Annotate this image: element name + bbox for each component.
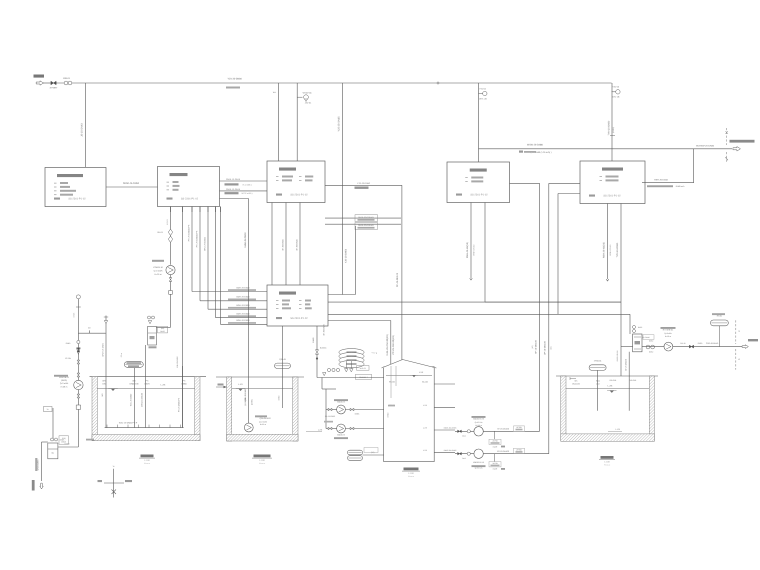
svg-text:QL: QL: [52, 451, 55, 454]
svg-text:XFJSB: XFJSB: [516, 426, 522, 429]
svg-text:XBD5-XX: XBD5-XX: [337, 434, 346, 437]
svg-text:(DN50): (DN50): [612, 127, 615, 133]
svg-text:Q=3 m3/h: Q=3 m3/h: [60, 382, 68, 385]
svg-text:H=10 m: H=10 m: [665, 335, 672, 338]
svg-text:DN40: DN40: [387, 413, 390, 418]
svg-text:DN-JS-DN32: DN-JS-DN32: [176, 356, 179, 367]
svg-text:XF-JS-DN100: XF-JS-DN100: [497, 428, 509, 431]
svg-text:QSB 25-8-22: QSB 25-8-22: [259, 417, 270, 420]
svg-text:ZC-DN: ZC-DN: [65, 357, 71, 360]
svg-text:DYL-JB: DYL-JB: [612, 96, 620, 99]
svg-text:RS.DN: RS.DN: [389, 381, 396, 384]
svg-text:(X2): (X2): [549, 346, 552, 350]
svg-text:DN15-JS-D15-WX: DN15-JS-D15-WX: [358, 224, 374, 227]
svg-text:DN65-DN: DN65-DN: [130, 383, 139, 386]
svg-text:YSJ-03: YSJ-03: [612, 86, 619, 89]
svg-text:Q=3 m3/h: Q=3 m3/h: [259, 420, 267, 423]
svg-text:XBD5/XX-XX: XBD5/XX-XX: [473, 418, 485, 421]
svg-text:XG.DN1: XG.DN1: [630, 379, 637, 382]
svg-text:WSJ-JS-DN40: WSJ-JS-DN40: [203, 236, 206, 250]
svg-text:ZPJSB: ZPJSB: [516, 448, 522, 451]
svg-text:JXYSB: JXYSB: [492, 462, 498, 465]
svg-text:WL.DN: WL.DN: [422, 381, 429, 384]
svg-text:DN70: DN70: [144, 383, 150, 386]
svg-text:XH-JS-DN50: XH-JS-DN50: [281, 238, 284, 250]
svg-text:WSJ-JS-DN65-PS-P: WSJ-JS-DN65-PS-P: [119, 421, 138, 424]
svg-text:L.XX: L.XX: [608, 385, 613, 388]
svg-text:DN65-200-DN65: DN65-200-DN65: [444, 449, 457, 452]
svg-text:SS-2301-P1-02: SS-2301-P1-02: [470, 194, 488, 197]
svg-text:PS-JS-DN100-PS: PS-JS-DN100-PS: [187, 224, 190, 241]
svg-text:DN25: DN25: [73, 313, 76, 318]
svg-text:DN15-JS-DN15: DN15-JS-DN15: [226, 188, 241, 191]
svg-text:XFSB-01: XFSB-01: [594, 360, 602, 363]
svg-text:RSH-JS-40(X2): RSH-JS-40(X2): [466, 242, 469, 258]
svg-text:DN50: DN50: [649, 351, 653, 354]
svg-text:WS2: WS2: [596, 380, 600, 383]
svg-text:ZP-JS-DN100: ZP-JS-DN100: [396, 272, 399, 287]
svg-text:DN65: DN65: [312, 337, 315, 343]
svg-text:WYL-JB: WYL-JB: [479, 97, 487, 100]
svg-text:YSJ-02: YSJ-02: [479, 87, 486, 90]
svg-text:WSD2-04: WSD2-04: [303, 91, 313, 94]
svg-text:L.XX: L.XX: [423, 404, 428, 407]
svg-text:1:100: 1:100: [259, 459, 265, 462]
svg-text:YL: YL: [113, 465, 115, 468]
svg-text:(XX): (XX): [161, 327, 165, 330]
svg-text:GL-DN40: GL-DN40: [642, 336, 649, 339]
svg-text:ZP-JS-DN100: ZP-JS-DN100: [497, 450, 509, 453]
svg-text:XH-JS-DN65: XH-JS-DN65: [323, 323, 326, 335]
svg-text:DN50: DN50: [649, 340, 653, 343]
svg-text:SS-2301-P1-02: SS-2301-P1-02: [181, 198, 199, 201]
svg-text:ZP-JS-DN100: ZP-JS-DN100: [543, 340, 546, 354]
svg-text:(DN65): (DN65): [250, 399, 253, 405]
svg-text:75.1 m3/h ): 75.1 m3/h ): [242, 183, 252, 186]
svg-text:ZC.m: ZC.m: [120, 352, 123, 357]
svg-text:YJS-JS-DN50: YJS-JS-DN50: [345, 248, 348, 263]
svg-text:XHS(X2)-DN100: XHS(X2)-DN100: [141, 393, 144, 407]
svg-text:Q=XX L/s: Q=XX L/s: [475, 421, 483, 424]
svg-text:XH-JS-DN40: XH-JS-DN40: [295, 238, 298, 250]
svg-text:H=xx.x: H=xx.x: [144, 462, 150, 465]
svg-text:DN34-DN: DN34-DN: [572, 382, 580, 385]
svg-text:H=XX m: H=XX m: [475, 424, 482, 427]
svg-text:WLRSW-JS-DN40: WLRSW-JS-DN40: [696, 144, 715, 147]
svg-text:H=xx.x: H=xx.x: [259, 462, 265, 465]
svg-text:TYN-JS-DN50: TYN-JS-DN50: [607, 120, 610, 135]
svg-text:L.XX: L.XX: [419, 371, 424, 374]
svg-text:XBD5/XX-XX: XBD5/XX-XX: [473, 461, 485, 464]
svg-text:XFWY-JS-DN25: XFWY-JS-DN25: [101, 343, 104, 357]
svg-text:DN50-JS-DN50: DN50-JS-DN50: [123, 182, 140, 185]
svg-text:L.XX: L.XX: [616, 428, 621, 431]
svg-text:RSH-GS-40: RSH-GS-40: [473, 244, 476, 256]
svg-text:YL: YL: [47, 408, 49, 411]
svg-text:RS-XHB-01: RS-XHB-01: [663, 329, 674, 332]
svg-text:DN25: DN25: [60, 439, 65, 442]
svg-text:LG-01: LG-01: [166, 218, 169, 224]
svg-text:WSJ-JS-DN40: WSJ-JS-DN40: [130, 394, 133, 406]
svg-text:50 TE m3/h ): 50 TE m3/h ): [242, 192, 253, 195]
svg-text:SHW-JS-DN50: SHW-JS-DN50: [244, 232, 247, 248]
svg-text:(25SG): (25SG): [61, 379, 67, 382]
svg-text:+ <> μ: + <> μ: [372, 351, 377, 354]
svg-text:DN65 m/h: DN65 m/h: [676, 185, 685, 188]
svg-text:RG.DN1: RG.DN1: [610, 379, 617, 382]
svg-text:DN65: DN65: [181, 383, 187, 386]
svg-text:PS-JS-DN65-PS: PS-JS-DN65-PS: [178, 397, 181, 412]
svg-text:JS-JS-DN40: JS-JS-DN40: [81, 123, 84, 137]
svg-text:SS-2301-P1-02: SS-2301-P1-02: [290, 317, 308, 320]
svg-text:JXYSB: JXYSB: [492, 440, 498, 443]
svg-text:ZP-JS-DN100(X2): ZP-JS-DN100(X2): [392, 335, 395, 355]
svg-text:H=28 m: H=28 m: [61, 385, 68, 388]
svg-text:SS-2301-P1-02: SS-2301-P1-02: [603, 195, 621, 198]
svg-text:XF-JS-DN100: XF-JS-DN100: [624, 359, 627, 371]
svg-text:WSW-JS-DN80: WSW-JS-DN80: [527, 144, 544, 147]
svg-text:H=xx.x: H=xx.x: [408, 475, 414, 478]
svg-text:TYN-JS-DN50: TYN-JS-DN50: [616, 242, 619, 257]
svg-text:DN65-150-DN65: DN65-150-DN65: [444, 427, 457, 430]
svg-text:DN25: DN25: [160, 330, 164, 333]
svg-text:L.XX: L.XX: [423, 427, 428, 430]
svg-text:Q=5m3/h: Q=5m3/h: [664, 332, 671, 335]
svg-text:YJS-JS-DN80: YJS-JS-DN80: [227, 78, 242, 81]
svg-text:SS-2301-P1-02: SS-2301-P1-02: [68, 198, 86, 201]
svg-text:XHS-JS-DN100(X2): XHS-JS-DN100(X2): [386, 334, 389, 355]
svg-text:L.XX: L.XX: [238, 383, 243, 386]
svg-text:H=xx.x: H=xx.x: [604, 463, 610, 466]
svg-text:YJS-JS-DN50: YJS-JS-DN50: [357, 182, 371, 185]
svg-text:DN65: DN65: [355, 413, 360, 416]
svg-text:RS-JS: RS-JS: [680, 342, 686, 345]
svg-text:ZS-JS-DN65: ZS-JS-DN65: [325, 415, 335, 418]
svg-text:SS-2301-P1-02: SS-2301-P1-02: [290, 194, 308, 197]
svg-text:H=25 m: H=25 m: [154, 273, 161, 276]
svg-text:CRS-JS-DN40: CRS-JS-DN40: [706, 342, 718, 345]
svg-text:QS-DN65: QS-DN65: [244, 398, 247, 406]
svg-text:DN20-JS-DN: DN20-JS-DN: [616, 350, 619, 361]
svg-text:RSH-JS-40(X2): RSH-JS-40(X2): [603, 242, 606, 258]
svg-text:YJS-JS-DN65: YJS-JS-DN65: [338, 116, 341, 132]
svg-text:RSH-JS-DN40: RSH-JS-DN40: [654, 179, 668, 182]
svg-text:W.L: W.L: [273, 91, 276, 94]
svg-text:SH-01: SH-01: [157, 231, 164, 234]
svg-text:DN50: DN50: [278, 396, 281, 401]
svg-text:DN40: DN40: [66, 342, 71, 345]
svg-text:DN25: DN25: [638, 326, 642, 329]
svg-text:KLDR: KLDR: [493, 468, 498, 471]
svg-text:ZSW25-10: ZSW25-10: [153, 266, 163, 269]
svg-text:DN15-JS-D15-WX: DN15-JS-D15-WX: [358, 216, 374, 219]
svg-text:XYWRT: XYWRT: [50, 87, 59, 90]
svg-text:PS-JS-DN100-PS: PS-JS-DN100-PS: [195, 230, 198, 247]
svg-text:XF-JS-DN100: XF-JS-DN100: [534, 339, 537, 353]
svg-text:L.XX: L.XX: [423, 449, 428, 452]
svg-text:DN50: DN50: [698, 342, 703, 345]
svg-text:L.XX: L.XX: [318, 429, 323, 432]
svg-text:DN15-JS-DN15: DN15-JS-DN15: [226, 178, 241, 181]
svg-text:L.XX: L.XX: [161, 383, 166, 386]
svg-text:BLWXG: BLWXG: [320, 347, 327, 350]
svg-text:KLDR: KLDR: [493, 445, 498, 448]
svg-text:JSZ-01: JSZ-01: [305, 102, 312, 105]
svg-text:XLG-01: XLG-01: [360, 367, 366, 370]
svg-text:1:100: 1:100: [604, 461, 610, 464]
svg-text:RSH-GS-40: RSH-GS-40: [609, 244, 612, 256]
svg-text:Q=3 m3/h: Q=3 m3/h: [154, 270, 163, 273]
svg-text:JSB-01: JSB-01: [63, 77, 71, 80]
svg-text:1:100: 1:100: [408, 472, 414, 475]
svg-text:Q=XX L/s: Q=XX L/s: [475, 467, 483, 470]
svg-text:1:100: 1:100: [144, 459, 150, 462]
svg-text:H=22 m: H=22 m: [260, 423, 267, 426]
svg-text:(X2): (X2): [531, 345, 534, 349]
